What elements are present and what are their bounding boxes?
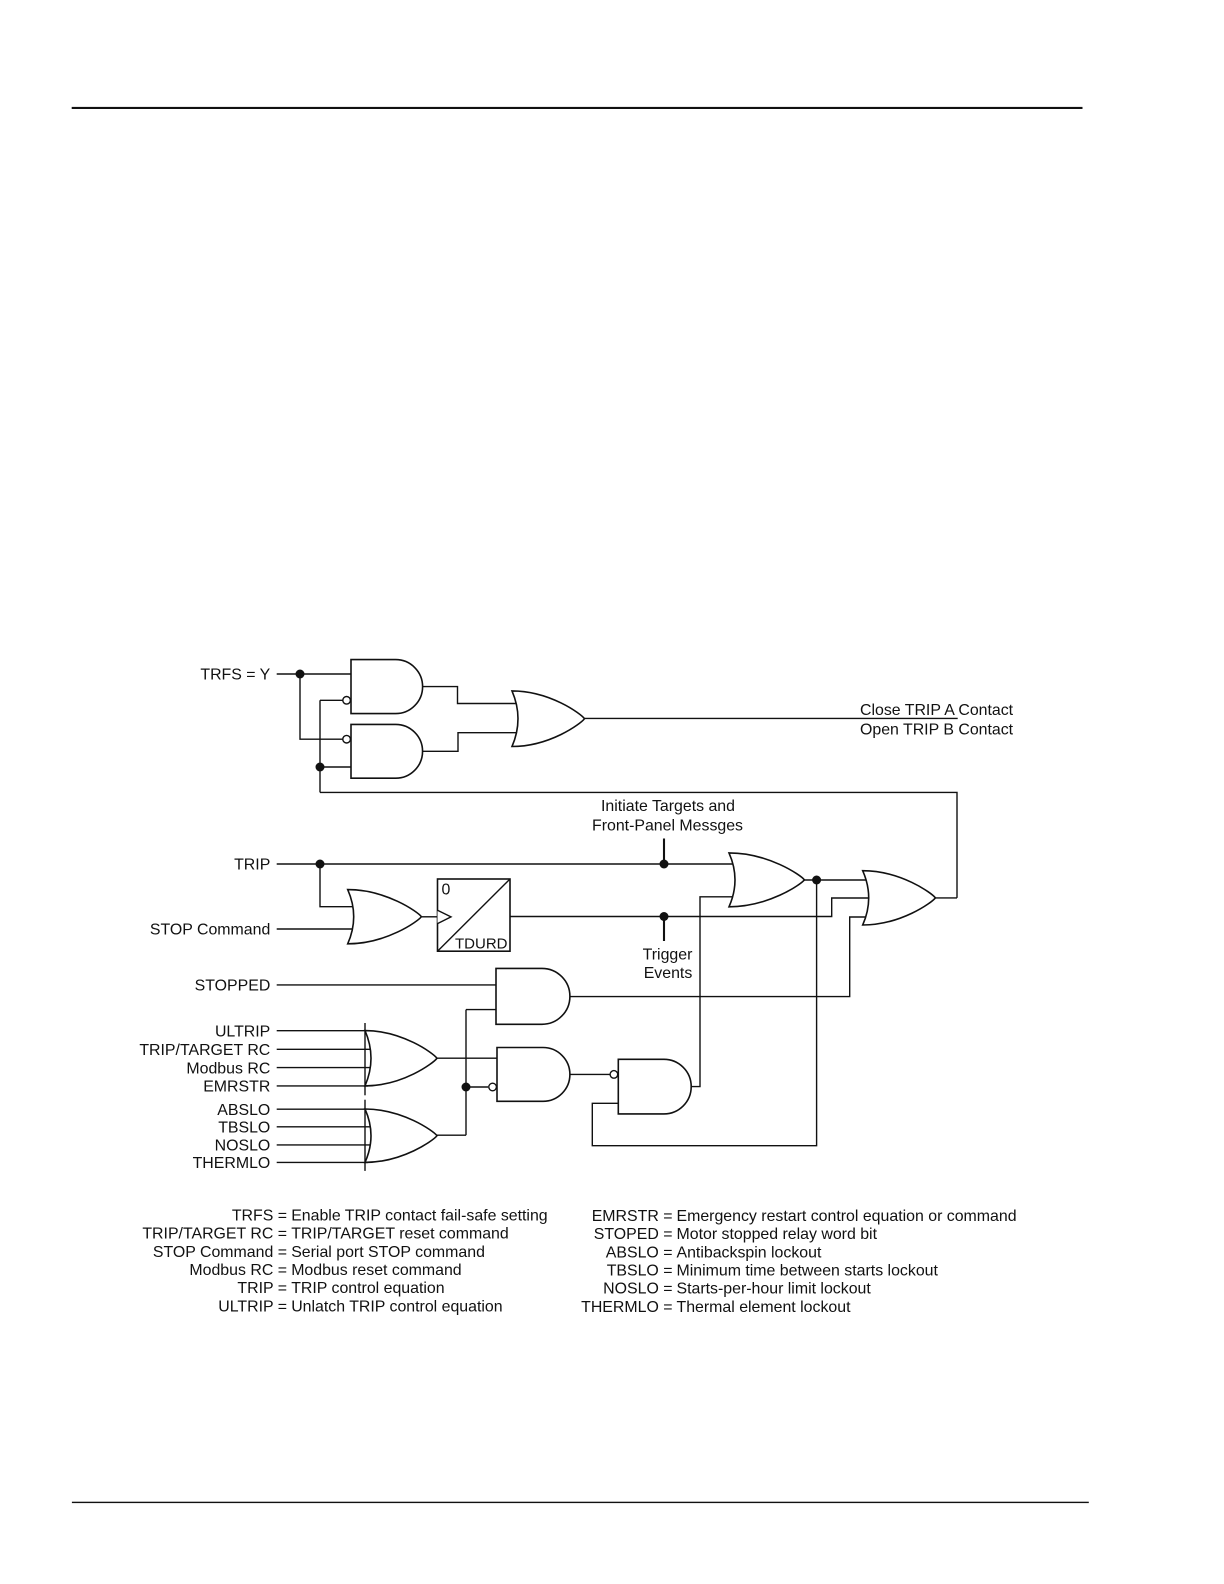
- wire TRIP input: [277, 863, 734, 865]
- svg-text:Modbus RC: Modbus RC: [186, 1060, 270, 1077]
- svg-text:Events: Events: [644, 965, 693, 982]
- wire U10 output to U11 inverted input: [570, 1073, 610, 1075]
- svg-text:NOSLO: NOSLO: [215, 1138, 271, 1155]
- wire lockout bus vertical: [465, 1010, 467, 1136]
- wire STOP Command input: [277, 928, 356, 930]
- svg-text:TBSLO: TBSLO: [218, 1120, 270, 1137]
- node TRIP junction: [316, 860, 325, 869]
- wire U6 output to timer: [422, 916, 438, 918]
- svg-text:Serial port STOP command: Serial port STOP command: [291, 1244, 485, 1261]
- AND gate U2 (non fail-safe): [351, 724, 423, 778]
- svg-text:Motor stopped relay word bit: Motor stopped relay word bit: [677, 1226, 878, 1243]
- svg-text:TDURD: TDURD: [455, 936, 508, 953]
- svg-text:Antibackspin lockout: Antibackspin lockout: [677, 1244, 822, 1261]
- wire U3 output to trip contacts: [585, 717, 958, 719]
- OR gate U9 (lockouts): [365, 1109, 437, 1162]
- wire NOSLO input: [277, 1144, 371, 1146]
- wire U5 output: [935, 897, 957, 899]
- AND gate U10 (unlatch): [497, 1048, 570, 1102]
- wire targets tick: [663, 839, 665, 865]
- svg-text:Minimum time between starts lo: Minimum time between starts lockout: [677, 1262, 939, 1279]
- svg-text:TRIP control equation: TRIP control equation: [291, 1280, 444, 1297]
- wire timer output to U5: [510, 898, 869, 917]
- svg-text:Modbus RC =: Modbus RC =: [189, 1262, 287, 1279]
- svg-text:TRFS = Y: TRFS = Y: [200, 667, 270, 684]
- svg-text:Close TRIP A Contact: Close TRIP A Contact: [860, 702, 1014, 719]
- svg-text:STOP Command: STOP Command: [150, 922, 270, 939]
- svg-text:TRIP/TARGET reset command: TRIP/TARGET reset command: [291, 1226, 509, 1243]
- OR gate U8 (reset commands): [365, 1031, 437, 1086]
- node targets junction: [660, 860, 669, 869]
- svg-text:ABSLO: ABSLO: [217, 1102, 270, 1119]
- AND gate U1 (TRFS fail-safe): [351, 660, 423, 714]
- wire U11 output up to U4 lower input: [691, 897, 736, 1087]
- svg-text:ABSLO =: ABSLO =: [606, 1244, 673, 1261]
- timer TDURD: [438, 879, 511, 951]
- wire TRIP/TARGET RC input: [277, 1048, 371, 1050]
- wire THERMLO input: [277, 1161, 368, 1163]
- top rule: [72, 107, 1083, 109]
- wire U1 output to U3: [423, 687, 516, 704]
- wire TBSLO input: [277, 1126, 371, 1128]
- input extension line U9: [364, 1100, 366, 1171]
- svg-text:Unlatch TRIP control equation: Unlatch TRIP control equation: [291, 1298, 502, 1315]
- wire TRFS=Y input: [277, 673, 351, 675]
- node lockout bus junction: [462, 1083, 471, 1092]
- wire lockout bus to U7 lower input: [466, 1009, 496, 1011]
- svg-text:TRIP: TRIP: [234, 857, 270, 874]
- OR gate U6 (trip/stop): [348, 890, 422, 944]
- wire lockout bus to U10 inverted input: [466, 1086, 488, 1088]
- svg-text:THERMLO =: THERMLO =: [581, 1299, 672, 1316]
- wire EMRSTR input: [277, 1085, 368, 1087]
- bottom rule: [72, 1502, 1089, 1503]
- wire ABSLO input: [277, 1108, 368, 1110]
- svg-text:NOSLO =: NOSLO =: [603, 1281, 672, 1298]
- svg-text:Open TRIP B Contact: Open TRIP B Contact: [860, 722, 1014, 739]
- wire Modbus RC input: [277, 1067, 371, 1069]
- svg-text:ULTRIP: ULTRIP: [215, 1023, 270, 1040]
- svg-text:TRFS =: TRFS =: [232, 1208, 287, 1225]
- wire TRFS to U2 inverted input: [300, 674, 343, 739]
- input extension line U8: [364, 1023, 366, 1095]
- svg-text:Initiate Targets and: Initiate Targets and: [601, 798, 735, 815]
- wire trigger events tick: [663, 917, 665, 942]
- OR gate U3 (contact drive): [512, 691, 585, 747]
- wire U2 output to U3: [423, 733, 516, 752]
- wire U4 output to U5: [804, 879, 869, 881]
- wire U7 output to U5 lower input: [570, 917, 869, 997]
- svg-text:TRIP/TARGET RC =: TRIP/TARGET RC =: [142, 1226, 287, 1243]
- svg-text:TRIP/TARGET RC: TRIP/TARGET RC: [139, 1042, 270, 1059]
- svg-text:STOP Command =: STOP Command =: [153, 1244, 287, 1261]
- svg-text:EMRSTR =: EMRSTR =: [592, 1208, 673, 1225]
- node TRFS junction: [296, 670, 305, 679]
- svg-text:ULTRIP =: ULTRIP =: [218, 1298, 287, 1315]
- svg-text:STOPPED: STOPPED: [195, 978, 271, 995]
- wire U2 lower input: [320, 766, 351, 768]
- svg-text:Trigger: Trigger: [643, 947, 693, 964]
- svg-text:Starts-per-hour limit lockout: Starts-per-hour limit lockout: [677, 1281, 872, 1298]
- AND gate U7 (stopped &amp; lockout): [496, 968, 570, 1024]
- wire feedback bus to U1 inverted input: [320, 699, 343, 701]
- node feedback junction: [316, 763, 325, 772]
- wire feedback bus vertical: [319, 700, 321, 792]
- svg-text:Front-Panel Messges: Front-Panel Messges: [592, 818, 743, 835]
- svg-text:Enable TRIP contact fail-safe: Enable TRIP contact fail-safe setting: [291, 1208, 547, 1225]
- svg-text:THERMLO: THERMLO: [193, 1155, 271, 1172]
- svg-text:Thermal element lockout: Thermal element lockout: [677, 1299, 852, 1316]
- svg-text:EMRSTR: EMRSTR: [203, 1079, 270, 1096]
- OR gate U4 (trip seal-in): [729, 853, 804, 907]
- wire U8 output to U10: [437, 1057, 497, 1059]
- wire U9 output to bus: [437, 1134, 466, 1136]
- svg-text:TRIP =: TRIP =: [237, 1280, 287, 1297]
- OR gate U5 (trip latch): [863, 871, 936, 925]
- svg-text:TBSLO =: TBSLO =: [607, 1262, 673, 1279]
- svg-text:STOPED =: STOPED =: [594, 1226, 673, 1243]
- svg-text:Emergency restart control equa: Emergency restart control equation or co…: [677, 1208, 1017, 1225]
- svg-text:Modbus reset command: Modbus reset command: [291, 1262, 461, 1279]
- wire U4 output down to U11 lower input: [592, 880, 816, 1146]
- wire ULTRIP input: [277, 1030, 368, 1032]
- AND gate U11 (latch reset): [618, 1059, 691, 1114]
- wire feedback rail: [320, 792, 957, 898]
- svg-text:0: 0: [442, 882, 451, 899]
- wire STOPPED input: [277, 984, 496, 986]
- wire TRIP to U6: [320, 864, 356, 907]
- node U4 output junction: [812, 876, 821, 885]
- node trigger junction: [660, 912, 669, 921]
